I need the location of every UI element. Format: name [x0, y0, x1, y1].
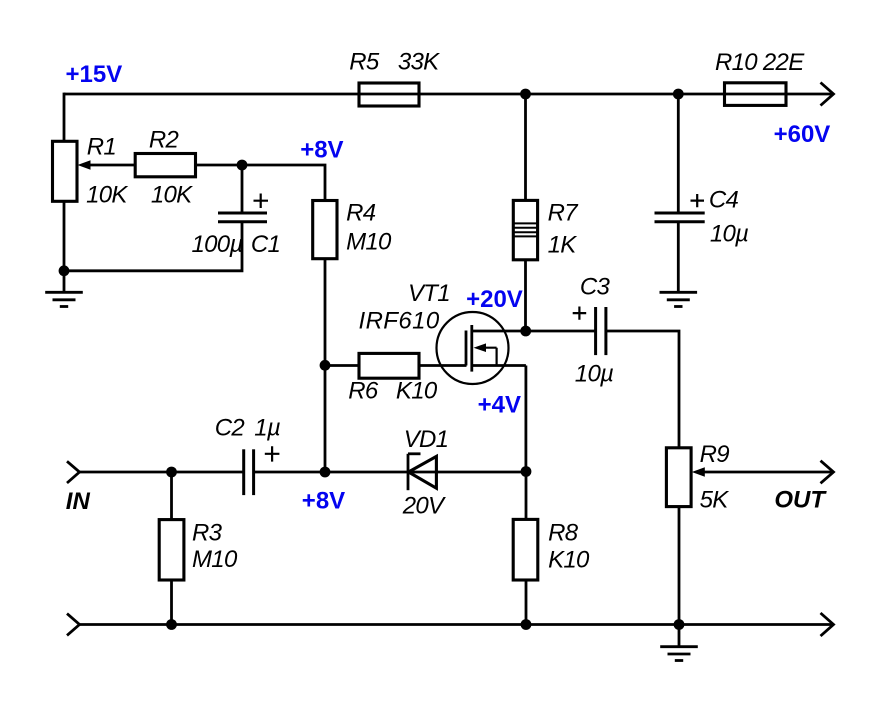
label + of C2: [265, 446, 280, 461]
svg-text:C4: C4: [709, 187, 739, 214]
resistor R10: [725, 83, 787, 106]
node G junction IN/R3: [166, 467, 177, 478]
svg-text:100µ: 100µ: [192, 231, 243, 258]
wire R1 bottom to ground node: [63, 201, 66, 270]
svg-text:+8V: +8V: [302, 488, 345, 515]
label 100µ: [192, 231, 243, 258]
wire R4 bottom to node E: [324, 259, 327, 366]
wire C3 right to R9 top: [606, 331, 679, 448]
label VD1: [404, 426, 449, 453]
transistor VT1 gate plate: [465, 331, 468, 366]
wire VT1 drain to C3: [472, 330, 596, 333]
label +4V: [478, 392, 521, 419]
wire R7 top stem: [524, 94, 527, 200]
label +15V: [66, 61, 123, 88]
label R7: [548, 200, 580, 227]
label M10 of R4: [346, 229, 392, 256]
svg-text:OUT: OUT: [774, 487, 827, 514]
resistor R7: [513, 200, 537, 259]
resistor R3: [159, 520, 184, 580]
node junction top rail C4: [673, 89, 684, 100]
label K10 of R8: [548, 547, 590, 574]
label +60V: [774, 121, 831, 148]
node H junction +8V: [320, 467, 331, 478]
label R8: [548, 520, 579, 547]
wire node A down to C1: [241, 165, 244, 213]
label R4: [346, 200, 376, 227]
label C4: [709, 187, 739, 214]
svg-text:C3: C3: [580, 274, 611, 301]
label R9: [700, 441, 730, 468]
label R3: [192, 520, 223, 547]
svg-text:R6: R6: [348, 378, 379, 405]
label K10 of R6: [396, 378, 438, 405]
resistor R6: [359, 353, 419, 378]
diode VD1 zener: [408, 454, 436, 490]
svg-text:M10: M10: [346, 229, 392, 256]
transistor VT1 body arrow: [474, 343, 497, 366]
svg-text:K10: K10: [548, 547, 590, 574]
svg-text:C1: C1: [251, 231, 280, 258]
resistor R8: [513, 519, 538, 580]
wire bottom rail: [80, 623, 833, 626]
wire R8 top stem: [525, 472, 528, 520]
wire top +15V rail: [64, 93, 832, 96]
node J junction rail R3: [166, 619, 177, 630]
node I junction source/VD1/R8: [521, 466, 532, 477]
svg-text:1K: 1K: [548, 232, 578, 259]
label IN: [66, 488, 91, 515]
svg-text:K10: K10: [396, 378, 438, 405]
wire input rail right segment: [254, 471, 526, 474]
svg-text:R1: R1: [87, 133, 116, 160]
label OUT: [774, 487, 827, 514]
label + of C3: [573, 307, 587, 320]
svg-text:+20V: +20V: [466, 286, 523, 313]
resistor R5: [359, 83, 419, 106]
wire VT1 source: [472, 366, 526, 472]
svg-text:C2: C2: [215, 415, 245, 442]
capacitor C2: [244, 449, 254, 495]
label 10µ of C3: [575, 361, 613, 388]
resistor R4: [313, 201, 337, 259]
potentiometer R9: [666, 448, 691, 507]
label IRF610: [359, 308, 440, 335]
node bottom rail arrow left: [67, 614, 80, 636]
svg-text:IN: IN: [66, 488, 91, 515]
svg-text:5K: 5K: [700, 487, 730, 514]
label R5: [349, 48, 380, 75]
svg-text:+15V: +15V: [66, 61, 123, 88]
svg-text:R9: R9: [700, 441, 730, 468]
wire R1 wiper with arrow: [78, 160, 136, 169]
svg-text:10µ: 10µ: [710, 221, 748, 248]
label C1: [251, 231, 280, 258]
label R6: [348, 378, 379, 405]
ground below node B: [45, 271, 83, 307]
svg-text:20V: 20V: [402, 493, 446, 520]
capacitor C3: [596, 307, 606, 355]
node IN arrow: [67, 461, 80, 483]
svg-text:M10: M10: [192, 546, 238, 573]
wire node E to R6: [325, 364, 359, 367]
wire node A to R4 top corner: [242, 165, 325, 201]
node E junction R4/R6: [320, 360, 331, 371]
transistor VT1 MOSFET circle: [437, 312, 509, 384]
wire C1 bottom to ground node B: [64, 222, 242, 271]
ground below C4: [660, 292, 698, 306]
label C2: [215, 415, 245, 442]
wire R2 to node A: [196, 164, 243, 167]
node A junction R2/C1: [237, 160, 248, 171]
node B junction R1/C1 ground: [59, 265, 70, 276]
svg-text:33K: 33K: [398, 48, 440, 75]
wire R3 bottom stem: [170, 580, 173, 625]
svg-text:R7: R7: [548, 200, 580, 227]
label 10K of R1: [86, 182, 128, 209]
label M10 of R3: [192, 546, 238, 573]
wire R8 bottom stem: [525, 580, 528, 625]
label 10µ of C4: [710, 221, 748, 248]
label R10 22E: [715, 49, 805, 76]
label + of C1: [254, 194, 269, 209]
node K junction rail R8: [521, 619, 532, 630]
svg-text:R3: R3: [192, 520, 223, 547]
svg-text:R5: R5: [349, 48, 380, 75]
label + of C4: [691, 194, 705, 207]
wire node E down to input rail: [324, 365, 327, 472]
svg-text:R10 22E: R10 22E: [715, 49, 805, 76]
node bottom rail arrow right: [821, 613, 834, 636]
svg-text:1µ: 1µ: [254, 415, 280, 442]
label +8V bottom: [302, 488, 345, 515]
svg-text:+8V: +8V: [300, 136, 343, 163]
node junction top rail R7: [520, 89, 531, 100]
capacitor C4: [655, 213, 705, 222]
svg-text:R8: R8: [548, 520, 579, 547]
label +8V top: [300, 136, 343, 163]
label 20V: [402, 493, 446, 520]
label R1: [87, 133, 116, 160]
label VT1: [408, 280, 450, 307]
wire R7 bottom to node F: [524, 260, 527, 331]
svg-text:VD1: VD1: [404, 426, 449, 453]
wire R3 top stem: [170, 472, 173, 520]
label 1µ: [254, 415, 280, 442]
svg-text:R2: R2: [149, 127, 179, 154]
node F junction drain/R7: [520, 326, 531, 337]
ground below bottom rail: [660, 625, 698, 661]
wire input rail left segment: [80, 471, 244, 474]
wire C4 top stem: [677, 94, 680, 213]
svg-text:VT1: VT1: [408, 280, 450, 307]
wire C4 bottom stem: [677, 222, 680, 292]
wire R9 bottom to rail: [678, 507, 681, 625]
svg-text:+60V: +60V: [774, 121, 831, 148]
resistor R2: [135, 154, 195, 177]
svg-text:R4: R4: [346, 200, 376, 227]
svg-text:10K: 10K: [86, 182, 128, 209]
node top rail arrow right: [821, 83, 834, 106]
label 5K: [700, 487, 730, 514]
wire +15V rail left drop to R1: [63, 93, 66, 142]
label 1K: [548, 232, 578, 259]
wire R6 to gate: [419, 364, 467, 367]
label 10K of R2: [151, 182, 193, 209]
wire R9 wiper to OUT with arrow: [692, 461, 834, 484]
label 33K: [398, 48, 440, 75]
svg-text:IRF610: IRF610: [359, 308, 440, 335]
node L junction rail R9: [674, 619, 685, 630]
svg-text:+4V: +4V: [478, 392, 521, 419]
label C3: [580, 274, 611, 301]
capacitor C1: [218, 213, 267, 222]
label R2: [149, 127, 179, 154]
svg-text:10µ: 10µ: [575, 361, 613, 388]
transistor VT1 channel: [470, 325, 473, 372]
svg-text:10K: 10K: [151, 182, 193, 209]
potentiometer R1: [53, 141, 78, 201]
label +20V: [466, 286, 523, 313]
